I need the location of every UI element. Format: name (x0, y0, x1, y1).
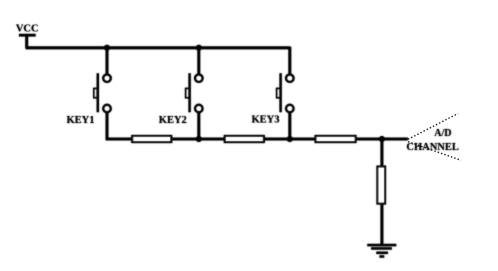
svg-text:KEY2: KEY2 (159, 115, 187, 126)
port dashed line lower (408, 142, 461, 161)
switch KEY3 (277, 73, 294, 112)
resistor R2 (225, 136, 264, 142)
wire R3 to node D (356, 138, 408, 141)
resistor R1 (132, 136, 171, 142)
switch KEY1 (94, 73, 111, 112)
svg-text:VCC: VCC (16, 23, 39, 34)
wire key2 drop (197, 48, 200, 75)
wire key1 to row (107, 112, 132, 139)
resistor R3 (316, 136, 356, 142)
wire key2 to row (197, 112, 200, 139)
wire top bus (26, 46, 290, 49)
resistor R4 (378, 167, 386, 204)
switch KEY2 (186, 73, 203, 112)
junction dot top key1 (104, 45, 110, 51)
ground (367, 245, 396, 256)
junction dot node B (196, 136, 202, 142)
svg-text:A/D: A/D (434, 128, 451, 139)
power symbol VCC (16, 23, 39, 47)
junction dot node D (379, 136, 385, 142)
svg-text:KEY1: KEY1 (67, 115, 95, 126)
svg-text:KEY3: KEY3 (252, 115, 280, 126)
wire node D to R4 (380, 139, 383, 167)
svg-text:CHANNEL: CHANNEL (406, 142, 459, 153)
wire key1 drop (106, 48, 109, 75)
wire key3 to row (288, 112, 291, 139)
junction dot top key2 (196, 45, 202, 51)
wire R1 to node B (171, 138, 225, 141)
port A/D CHANNEL labels (406, 128, 459, 153)
wire key3 drop (288, 47, 291, 75)
junction dot node C (287, 136, 293, 142)
port dashed line upper (408, 114, 458, 140)
wire R4 to ground (380, 204, 383, 246)
wire R2 to node C (264, 138, 316, 141)
